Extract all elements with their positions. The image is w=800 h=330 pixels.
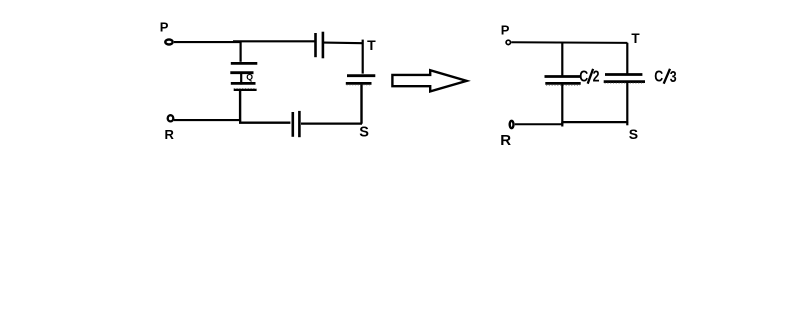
svg-text:R: R <box>500 132 511 149</box>
svg-text:2: 2 <box>593 67 600 85</box>
svg-text:R: R <box>165 127 175 142</box>
svg-text:3: 3 <box>670 68 677 86</box>
svg-text:S: S <box>359 124 369 140</box>
svg-text:C: C <box>654 67 663 85</box>
svg-text:P: P <box>501 23 510 38</box>
svg-text:C: C <box>579 67 588 85</box>
svg-text:T: T <box>631 31 640 46</box>
svg-text:P: P <box>160 19 169 34</box>
svg-text:S: S <box>629 126 638 142</box>
svg-text:T: T <box>367 37 376 53</box>
svg-text:Q: Q <box>246 72 253 82</box>
